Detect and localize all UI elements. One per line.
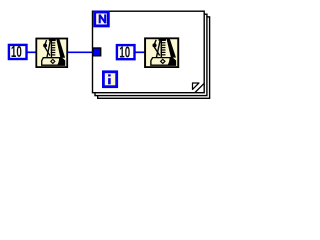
svg-text:10: 10 <box>119 43 130 61</box>
svg-text:10: 10 <box>11 43 22 61</box>
